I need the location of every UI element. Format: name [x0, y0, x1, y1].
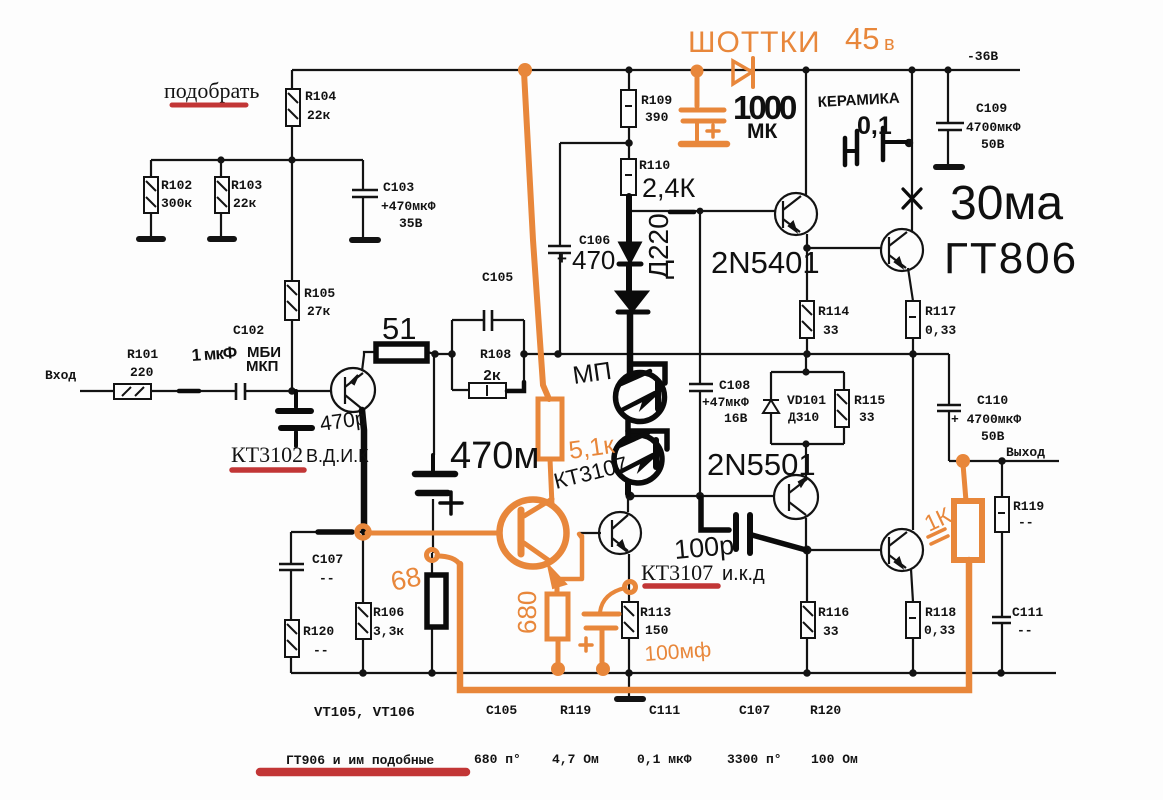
svg-text:16В: 16В [724, 411, 748, 426]
svg-text:0,1: 0,1 [857, 112, 892, 140]
svg-text:--: -- [313, 643, 329, 658]
svg-text:R115: R115 [854, 393, 885, 408]
svg-text:R118: R118 [925, 605, 956, 620]
svg-text:--: -- [1017, 623, 1033, 638]
svg-text:R119: R119 [560, 703, 591, 718]
svg-text:подобрать: подобрать [164, 78, 259, 103]
svg-text:МКП: МКП [246, 358, 278, 375]
svg-text:33: 33 [859, 410, 875, 425]
svg-text:R109: R109 [641, 93, 672, 108]
svg-text:68: 68 [388, 561, 424, 597]
svg-text:Вход: Вход [45, 368, 76, 383]
svg-text:ШОТТКИ: ШОТТКИ [688, 26, 821, 59]
svg-text:2N5401: 2N5401 [711, 245, 820, 280]
svg-text:и.к.д: и.к.д [722, 563, 765, 585]
svg-text:30ма: 30ма [950, 177, 1063, 230]
svg-text:VD101: VD101 [787, 393, 826, 408]
svg-text:0,1 мкФ: 0,1 мкФ [637, 752, 692, 767]
svg-text:+470мкФ: +470мкФ [381, 199, 436, 214]
svg-text:ГТ906 и им подобные: ГТ906 и им подобные [286, 753, 434, 768]
svg-text:C109: C109 [976, 101, 1007, 116]
svg-text:R104: R104 [305, 89, 336, 104]
svg-text:300к: 300к [161, 196, 192, 211]
svg-text:22к: 22к [233, 196, 257, 211]
svg-text:МК: МК [747, 120, 777, 143]
svg-text:Д220: Д220 [643, 213, 674, 279]
svg-text:+47мкФ: +47мкФ [702, 395, 749, 410]
svg-text:C103: C103 [383, 180, 414, 195]
svg-text:35В: 35В [399, 216, 423, 231]
svg-text:33: 33 [823, 624, 839, 639]
svg-text:150: 150 [645, 623, 669, 638]
svg-text:100p: 100p [673, 530, 735, 565]
svg-text:R113: R113 [640, 605, 671, 620]
svg-text:2к: 2к [483, 368, 501, 385]
svg-text:3300 п°: 3300 п° [727, 752, 782, 767]
svg-text:КТ3102: КТ3102 [231, 442, 303, 467]
svg-text:МП: МП [571, 357, 613, 390]
svg-text:-36В: -36В [967, 49, 998, 64]
svg-text:390: 390 [645, 110, 669, 125]
svg-text:в: в [884, 33, 895, 55]
svg-text:4,7 Ом: 4,7 Ом [552, 752, 599, 767]
svg-text:R108: R108 [480, 347, 511, 362]
svg-text:--: -- [319, 571, 335, 586]
svg-text:R120: R120 [303, 624, 334, 639]
svg-text:1 мкФ: 1 мкФ [191, 343, 237, 365]
svg-text:R114: R114 [818, 304, 849, 319]
svg-text:ГТ806: ГТ806 [944, 234, 1078, 283]
svg-text:VT105, VT106: VT105, VT106 [314, 705, 415, 721]
svg-text:50В: 50В [981, 137, 1005, 152]
svg-text:33: 33 [823, 323, 839, 338]
svg-text:100 Ом: 100 Ом [811, 752, 858, 767]
svg-text:+: + [557, 249, 567, 268]
svg-text:C111: C111 [649, 703, 680, 718]
svg-text:C105: C105 [482, 270, 513, 285]
svg-text:0,33: 0,33 [924, 623, 955, 638]
svg-text:51: 51 [382, 311, 416, 346]
svg-text:R101: R101 [127, 347, 158, 362]
svg-text:680: 680 [512, 591, 542, 634]
svg-text:R120: R120 [810, 703, 841, 718]
svg-text:+ 4700мкФ: + 4700мкФ [951, 412, 1021, 427]
svg-text:C107: C107 [739, 703, 770, 718]
svg-text:R116: R116 [818, 605, 849, 620]
svg-text:27к: 27к [307, 304, 331, 319]
svg-text:C108: C108 [719, 378, 750, 393]
svg-text:100мф: 100мф [644, 638, 712, 666]
svg-text:R103: R103 [231, 178, 262, 193]
svg-text:470м: 470м [450, 435, 540, 477]
svg-text:220: 220 [130, 365, 154, 380]
svg-text:R102: R102 [161, 178, 192, 193]
svg-text:45: 45 [845, 21, 879, 56]
svg-text:680 п°: 680 п° [474, 752, 521, 767]
svg-text:4700мкФ: 4700мкФ [966, 120, 1021, 135]
svg-text:C102: C102 [233, 323, 264, 338]
svg-text:R110: R110 [639, 158, 670, 173]
svg-text:C105: C105 [486, 703, 517, 718]
svg-text:R119: R119 [1013, 499, 1044, 514]
svg-text:2,4К: 2,4К [642, 173, 696, 203]
svg-text:В.Д.И.К: В.Д.И.К [306, 446, 369, 466]
svg-text:2N5501: 2N5501 [707, 447, 816, 482]
svg-text:--: -- [1018, 515, 1034, 530]
svg-text:50В: 50В [981, 429, 1005, 444]
svg-text:3,3к: 3,3к [373, 624, 404, 639]
svg-text:Выход: Выход [1006, 445, 1045, 460]
svg-text:C110: C110 [977, 393, 1008, 408]
svg-text:R106: R106 [373, 605, 404, 620]
svg-text:R117: R117 [925, 304, 956, 319]
svg-text:C107: C107 [312, 552, 343, 567]
svg-text:R105: R105 [304, 286, 335, 301]
svg-text:Д310: Д310 [788, 410, 819, 425]
svg-text:22к: 22к [307, 108, 331, 123]
svg-text:0,33: 0,33 [925, 323, 956, 338]
svg-text:470: 470 [572, 245, 615, 275]
svg-text:C111: C111 [1012, 605, 1043, 620]
